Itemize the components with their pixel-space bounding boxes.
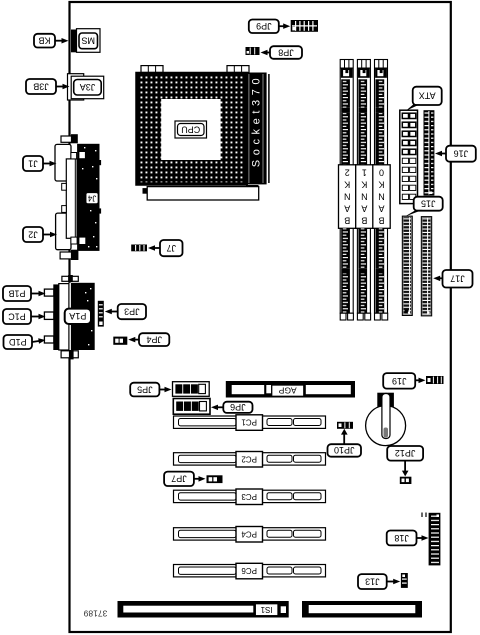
- svg-text:J18: J18: [394, 533, 409, 543]
- svg-text:B: B: [344, 216, 350, 226]
- svg-text:A: A: [378, 204, 384, 214]
- svg-text:PC1: PC1: [241, 418, 257, 427]
- svg-text:J2: J2: [28, 229, 38, 239]
- svg-text:1: 1: [362, 168, 367, 178]
- svg-text:JP12: JP12: [395, 448, 416, 458]
- svg-text:CPU: CPU: [181, 124, 200, 134]
- svg-text:K: K: [378, 180, 384, 190]
- svg-text:J15: J15: [421, 199, 436, 209]
- svg-text:J7: J7: [166, 243, 176, 253]
- svg-text:KB: KB: [38, 35, 50, 45]
- svg-text:N: N: [361, 192, 368, 202]
- svg-text:J3A: J3A: [80, 82, 96, 92]
- svg-text:JP7: JP7: [171, 474, 187, 484]
- svg-text:JP6: JP6: [230, 402, 246, 412]
- svg-text:0: 0: [379, 168, 384, 178]
- svg-text:J16: J16: [454, 149, 469, 159]
- svg-text:PC6: PC6: [241, 566, 257, 575]
- svg-text:N: N: [344, 192, 351, 202]
- svg-text:A: A: [361, 204, 367, 214]
- svg-text:P1A: P1A: [69, 311, 86, 321]
- svg-text:P1D: P1D: [9, 337, 27, 347]
- svg-text:JP9: JP9: [256, 21, 272, 31]
- svg-text:Socket370: Socket370: [251, 74, 263, 167]
- svg-text:PC4: PC4: [241, 529, 257, 538]
- svg-text:P1B: P1B: [8, 288, 25, 298]
- svg-text:A: A: [344, 204, 350, 214]
- svg-text:J19: J19: [392, 376, 407, 386]
- svg-text:PC2: PC2: [241, 454, 257, 463]
- svg-text:ATX: ATX: [419, 91, 436, 101]
- svg-text:B: B: [378, 216, 384, 226]
- svg-text:J4: J4: [87, 193, 96, 202]
- svg-text:PC3: PC3: [241, 492, 257, 501]
- svg-text:K: K: [361, 180, 367, 190]
- svg-text:JP4: JP4: [146, 334, 162, 344]
- svg-text:J17: J17: [450, 274, 465, 284]
- svg-text:J3B: J3B: [33, 81, 49, 91]
- svg-text:37189: 37189: [83, 609, 107, 619]
- svg-text:JP5: JP5: [137, 384, 153, 394]
- svg-text:AGP: AGP: [278, 386, 296, 396]
- svg-text:K: K: [344, 180, 350, 190]
- svg-text:JP10: JP10: [334, 445, 355, 455]
- svg-text:2: 2: [345, 168, 350, 178]
- svg-text:JP3: JP3: [124, 306, 140, 316]
- svg-text:JP8: JP8: [278, 47, 294, 57]
- svg-text:B: B: [361, 216, 367, 226]
- svg-text:J13: J13: [365, 576, 380, 586]
- svg-text:N: N: [378, 192, 385, 202]
- svg-text:MS: MS: [81, 36, 95, 46]
- svg-text:IS1: IS1: [260, 605, 273, 614]
- svg-text:J1: J1: [28, 158, 38, 168]
- svg-text:P1C: P1C: [8, 311, 26, 321]
